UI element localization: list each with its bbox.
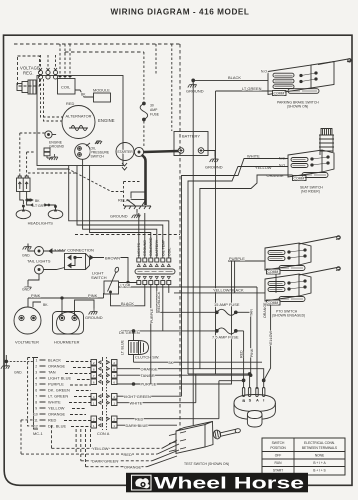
svg-text:WHITE: WHITE — [130, 400, 143, 405]
svg-text:N.O.: N.O. — [261, 70, 268, 74]
wires to headlamps — [20, 192, 56, 210]
headlamp right — [48, 206, 63, 219]
svg-text:COIL: COIL — [168, 248, 172, 256]
relay K1 — [118, 192, 151, 209]
tail light lower — [22, 265, 44, 292]
svg-text:LIGHT BLUE: LIGHT BLUE — [48, 376, 71, 381]
svg-text:SWITCH: SWITCH — [272, 441, 285, 445]
svg-text:HOURMETER: HOURMETER — [54, 340, 80, 345]
svg-text:PINK: PINK — [31, 293, 41, 298]
harness dashed line B — [65, 52, 144, 60]
svg-text:ORANGE: ORANGE — [48, 412, 66, 417]
svg-text:SWITCH: SWITCH — [91, 275, 107, 280]
svg-text:COIL: COIL — [61, 85, 71, 90]
svg-text:MODULE: MODULE — [93, 88, 110, 93]
svg-text:STARTER: STARTER — [117, 150, 133, 154]
svg-text:BATTERY: BATTERY — [182, 134, 200, 139]
svg-text:GROUND: GROUND — [49, 145, 65, 149]
svg-text:10: 10 — [34, 412, 38, 416]
starter S — [116, 143, 144, 171]
svg-text:WHITE: WHITE — [247, 153, 260, 158]
svg-text:S: S — [249, 398, 252, 403]
svg-text:TAIL LIGHTS: TAIL LIGHTS — [27, 259, 51, 264]
svg-text:TAN: TAN — [249, 309, 253, 316]
svg-text:HEADLIGHTS: HEADLIGHTS — [28, 221, 54, 226]
engine bottom link wires — [37, 168, 69, 170]
dashed diagonal to relay box — [67, 169, 123, 192]
engine ground bolt — [45, 131, 65, 149]
svg-text:YELLOW/BLACK: YELLOW/BLACK — [213, 288, 244, 293]
svg-text:B + I + A: B + I + A — [313, 461, 326, 465]
MC-1 gnd — [1, 355, 34, 375]
svg-text:3-WAY CONNECTION: 3-WAY CONNECTION — [54, 248, 94, 253]
svg-text:ORANGE: ORANGE — [141, 366, 159, 371]
test switch TS — [169, 422, 241, 467]
svg-text:DK. BLUE: DK. BLUE — [48, 424, 66, 429]
headlamp left — [16, 205, 31, 219]
svg-text:AMP: AMP — [150, 108, 158, 112]
svg-text:DK GREEN: DK GREEN — [119, 330, 140, 335]
svg-text:ELECTRICAL CONN.: ELECTRICAL CONN. — [304, 441, 335, 445]
light switch LS — [91, 267, 119, 294]
svg-text:2: 2 — [35, 364, 37, 368]
svg-text:BK: BK — [81, 93, 86, 97]
fuse leads dashed — [143, 52, 145, 147]
svg-text:RED: RED — [240, 350, 244, 358]
svg-text:BLACK: BLACK — [48, 358, 61, 363]
svg-text:Wheel Horse: Wheel Horse — [154, 475, 304, 493]
dashed leads from magneto up to harness — [41, 55, 56, 68]
red/black drop — [157, 285, 217, 313]
svg-text:BK: BK — [35, 199, 40, 203]
svg-text:RELAY: RELAY — [118, 198, 131, 203]
svg-text:BETWEEN TERMINALS: BETWEEN TERMINALS — [302, 446, 338, 450]
svg-text:LT GREEN: LT GREEN — [242, 86, 262, 91]
svg-text:NONE: NONE — [315, 454, 325, 458]
coil C — [58, 75, 76, 94]
thick cable solenoid to relay — [142, 155, 146, 205]
magneto dashed leads inside engine — [41, 79, 65, 121]
svg-text:DK. GREEN: DK. GREEN — [48, 388, 70, 393]
svg-text:GND.: GND. — [14, 371, 23, 375]
svg-text:PURPLE: PURPLE — [48, 382, 64, 387]
svg-text:(NO RIDER): (NO RIDER) — [301, 190, 320, 194]
svg-text:PURPLE: PURPLE — [229, 256, 245, 261]
svg-text:A: A — [256, 398, 259, 403]
pink vertical to key A — [250, 287, 257, 389]
seat switch SS — [279, 129, 334, 194]
svg-text:LT GR: LT GR — [121, 284, 131, 288]
headlight connector — [17, 176, 31, 192]
seat wires route left and down — [182, 159, 289, 397]
svg-text:GROUND: GROUND — [85, 315, 103, 320]
wire YELLOW/BLACK to PTO lower — [174, 292, 265, 294]
svg-text:7: 7 — [35, 394, 37, 398]
tail light upper — [22, 244, 44, 258]
dashed links MC1 left — [21, 358, 34, 455]
switch position table — [262, 438, 345, 475]
svg-text:DARK GREEN: DARK GREEN — [92, 459, 118, 464]
interlock connector — [135, 237, 175, 284]
svg-text:GROUND: GROUND — [205, 165, 223, 170]
svg-text:3: 3 — [35, 370, 37, 374]
svg-text:START: START — [273, 469, 283, 473]
svg-text:ENGINE: ENGINE — [98, 118, 115, 123]
7.5 amp fuse F3 — [212, 328, 244, 339]
svg-text:(SHOWN ENGAGED): (SHOWN ENGAGED) — [272, 314, 305, 318]
relay ground — [110, 209, 140, 219]
svg-text:RED: RED — [66, 101, 75, 106]
svg-text:RED: RED — [135, 416, 144, 421]
svg-text:YELLOW: YELLOW — [255, 165, 272, 170]
svg-text:YELLOW: YELLOW — [269, 330, 273, 346]
ground flag above oil pressure switch — [95, 141, 102, 144]
svg-text:POSITION: POSITION — [270, 446, 286, 450]
svg-text:1: 1 — [36, 358, 38, 362]
headlight connector leads dashed — [20, 133, 45, 176]
ground near parking brake — [186, 79, 204, 94]
magneto terminals on engine top — [38, 68, 57, 79]
pink wire row — [28, 287, 257, 315]
svg-text:30: 30 — [150, 104, 154, 108]
svg-text:4: 4 — [35, 376, 37, 380]
wire LT GREEN to parking brake — [216, 91, 273, 374]
svg-text:COMM: COMM — [294, 177, 305, 181]
3-way connection — [44, 248, 129, 283]
purple drop from interlock — [150, 285, 154, 385]
svg-text:FUSE: FUSE — [150, 113, 160, 117]
svg-text:CON A: CON A — [97, 431, 110, 436]
diagonals into test switch — [147, 440, 179, 467]
svg-text:RUN: RUN — [275, 461, 283, 465]
oil temp drop — [162, 285, 164, 331]
CON A connector — [91, 357, 117, 436]
svg-text:BK.: BK. — [169, 361, 175, 365]
CON A right side wire rows — [117, 261, 264, 428]
module M — [93, 88, 111, 103]
svg-text:ORANGE: ORANGE — [48, 364, 66, 369]
svg-text:COMM: COMM — [268, 301, 279, 305]
oil pressure switch OPS — [75, 143, 110, 159]
svg-text:YELLOW: YELLOW — [92, 446, 109, 451]
svg-text:VOLTMETER: VOLTMETER — [15, 340, 39, 345]
svg-text:CLUTCH SW.: CLUTCH SW. — [135, 355, 160, 360]
svg-text:OIL TEMP: OIL TEMP — [162, 239, 166, 256]
svg-text:TAN/BR: TAN/BR — [141, 373, 155, 378]
svg-text:PINK: PINK — [88, 293, 98, 298]
svg-text:B: B — [242, 398, 245, 403]
svg-text:OFF: OFF — [275, 454, 281, 458]
bottom dashed return wires — [21, 425, 162, 467]
tan vertical — [249, 309, 253, 374]
wire coil to module — [75, 90, 94, 97]
svg-text:LT. BLUE: LT. BLUE — [121, 339, 125, 355]
svg-text:BK.: BK. — [43, 303, 49, 307]
relay dashed box — [124, 182, 141, 207]
svg-text:COMM: COMM — [268, 270, 279, 274]
svg-text:WIRING DIAGRAM - 416 MODEL: WIRING DIAGRAM - 416 MODEL — [111, 8, 250, 17]
yellow vertical to key I — [264, 274, 276, 380]
BLACK wire light switch to interlock — [111, 285, 145, 307]
dashed drop x=156 — [155, 44, 157, 75]
svg-text:GND.: GND. — [22, 288, 31, 292]
PTO switch upper PTO1 — [265, 236, 340, 274]
DK GREEN wire — [119, 330, 217, 341]
BK wire from clutch — [134, 355, 263, 365]
svg-text:LT. GREEN: LT. GREEN — [48, 394, 68, 399]
svg-text:LIGHT GREEN: LIGHT GREEN — [124, 394, 151, 399]
svg-text:LT GR.: LT GR. — [33, 204, 44, 208]
battery ground — [204, 151, 223, 170]
15 amp fuse F2 — [214, 302, 251, 316]
svg-text:15 AMP FUSE: 15 AMP FUSE — [214, 302, 240, 307]
svg-text:5: 5 — [35, 382, 37, 386]
svg-text:SWITCH: SWITCH — [91, 155, 105, 159]
svg-text:ALTERNATOR: ALTERNATOR — [66, 114, 92, 119]
wires above interlock / harness horizontals — [69, 166, 169, 259]
svg-text:REG.: REG. — [23, 71, 34, 76]
ground near hourmeter — [75, 300, 103, 320]
svg-text:6: 6 — [35, 388, 37, 392]
svg-text:MC-1: MC-1 — [33, 431, 43, 436]
key switch KS — [234, 388, 275, 428]
svg-text:PURPLE: PURPLE — [150, 308, 154, 323]
coil dashed leads up — [60, 44, 70, 74]
hourmeter H — [53, 312, 84, 345]
alternator A — [62, 106, 95, 139]
voltage regulator VR dashed box — [18, 56, 40, 86]
svg-text:11: 11 — [34, 418, 38, 422]
svg-text:BROWN: BROWN — [105, 255, 120, 260]
svg-text:(SHOWN ON): (SHOWN ON) — [287, 105, 308, 109]
svg-text:BLACK: BLACK — [228, 75, 241, 80]
clutch switch CS — [121, 339, 160, 359]
svg-text:B + I + S: B + I + S — [313, 469, 326, 473]
svg-text:WHITE: WHITE — [48, 400, 61, 405]
parking brake switch PBS — [261, 59, 351, 109]
harness dashed line A — [14, 44, 180, 430]
svg-text:ORANGE: ORANGE — [263, 302, 267, 318]
svg-text:BLACK: BLACK — [121, 301, 134, 306]
LT GR wire from light switch to interlock — [119, 281, 137, 287]
svg-text:TEST SWITCH (SHOWN ON): TEST SWITCH (SHOWN ON) — [184, 462, 229, 466]
svg-text:PURPLE: PURPLE — [141, 382, 157, 387]
kill plug connector — [17, 80, 36, 94]
svg-text:RED: RED — [48, 418, 57, 423]
MC-1 connector — [33, 358, 71, 437]
battery B1 — [174, 132, 208, 156]
wheel horse logo — [126, 473, 308, 493]
svg-text:COMM: COMM — [274, 92, 285, 96]
svg-text:RED: RED — [124, 452, 133, 457]
svg-text:GROUND: GROUND — [110, 214, 128, 219]
engine ground connector + ground — [44, 148, 58, 160]
PTO switch lower PTO2 — [265, 267, 340, 318]
svg-text:GROUND: GROUND — [186, 89, 204, 94]
svg-text:DARK BLUE: DARK BLUE — [126, 423, 149, 428]
wires MC-1 to CON A — [64, 362, 91, 427]
svg-text:I: I — [263, 398, 264, 403]
30 amp fuse F1 — [140, 102, 160, 121]
wire BLACK to parking brake — [193, 79, 268, 81]
thick battery cable to starter — [144, 151, 179, 152]
svg-text:TAN: TAN — [48, 370, 56, 375]
wire PURPLE to PTO — [228, 260, 265, 262]
svg-text:GND.: GND. — [22, 254, 31, 258]
dashed drop x=171.8 to battery — [171, 44, 173, 131]
svg-text:PINK: PINK — [250, 348, 254, 357]
key switch wire dots — [188, 373, 265, 388]
svg-text:7.5 AMP FUSE: 7.5 AMP FUSE — [212, 334, 239, 339]
svg-text:YELLOW: YELLOW — [48, 406, 65, 411]
voltmeter V — [14, 307, 41, 345]
wire from black junction down — [192, 80, 194, 425]
svg-text:8: 8 — [35, 400, 37, 404]
coil drop to yellow/black — [168, 285, 170, 293]
svg-text:9: 9 — [35, 406, 37, 410]
red vertical to key B — [240, 331, 244, 381]
engine block — [37, 76, 123, 166]
svg-text:12: 12 — [34, 424, 38, 428]
svg-text:RED/BLACK: RED/BLACK — [157, 291, 161, 312]
svg-text:ORANGE: ORANGE — [124, 464, 142, 469]
